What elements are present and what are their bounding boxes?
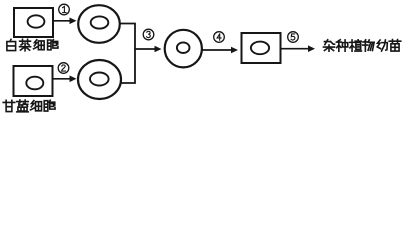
arrow 2 [53,76,77,83]
protoplast ellipse bottom [78,60,121,99]
arrow 5 [281,45,316,52]
label: za zhong zhi wu you miao (hybrid plant seedling) [323,40,400,52]
circled number 1 [59,4,70,15]
arrow 1 [53,18,77,25]
fused protoplast circle [165,30,202,68]
label: gan lan xi bao (cabbage cell) [3,100,55,112]
circled number 5 [288,32,299,43]
nucleus ellipse inside right box [251,42,269,55]
circled number 2 [58,63,69,74]
arrow 4 [202,47,239,54]
nucleus inside top protoplast [91,16,109,28]
nucleus ellipse inside bottom-left box [26,77,43,90]
circled number 3 [143,29,154,40]
merge bracket wire [120,24,135,84]
nucleus inside bottom protoplast [90,73,109,86]
box: hybrid cell (right) [242,33,281,63]
protoplast ellipse top [78,5,120,43]
box: cabbage cell (bottom-left) [14,66,53,96]
arrow 3 [134,46,161,53]
nucleus inside fused protoplast [177,42,190,53]
nucleus ellipse inside top-left box [28,15,45,27]
label: bai cai xi bao (Chinese cabbage cell) [7,39,58,51]
box: Chinese cabbage cell (top-left) [14,8,53,37]
circled number 4 [214,32,225,43]
